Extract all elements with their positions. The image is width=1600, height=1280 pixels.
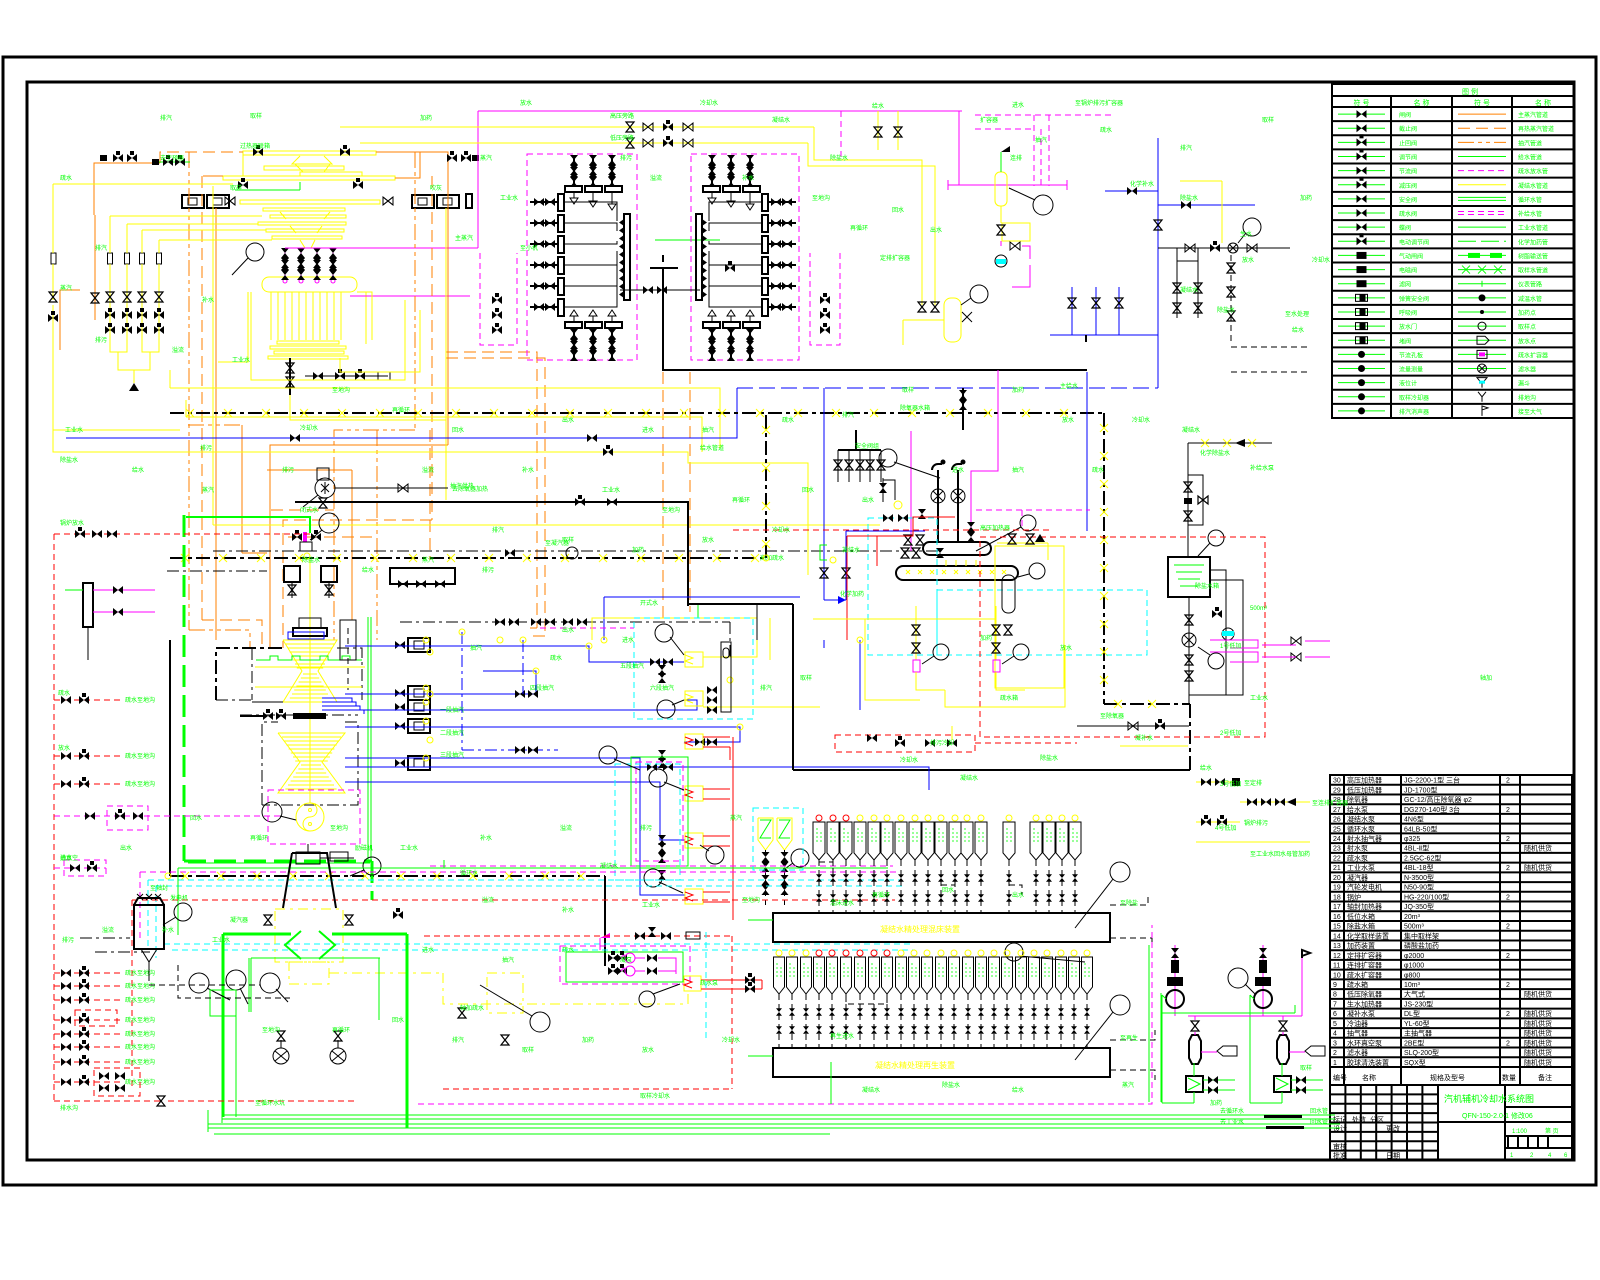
- svg-text:化学除盐水: 化学除盐水: [1200, 449, 1230, 457]
- svg-text:冷却水: 冷却水: [900, 756, 918, 764]
- row1 bypass dashes: [941, 885, 955, 895]
- svg-text:进水: 进水: [952, 466, 964, 474]
- svg-text:N50-90型: N50-90型: [1404, 883, 1434, 892]
- heat trace under turbine: [170, 875, 605, 877]
- manifold outer bar: [762, 194, 768, 211]
- svg-text:GC-12/高压除氧器 φ2: GC-12/高压除氧器 φ2: [1404, 795, 1472, 804]
- svg-text:混床进水: 混床进水: [830, 899, 854, 907]
- svg-text:给水: 给水: [1200, 764, 1212, 772]
- sample magenta riser: [1262, 945, 1264, 1016]
- attemperator spray line: [350, 295, 470, 297]
- green cross line: [1161, 1012, 1295, 1014]
- feedwater line to drum: [285, 247, 478, 249]
- deaerator instrument top: [1020, 515, 1036, 531]
- svg-text:安全阀: 安全阀: [1399, 196, 1417, 204]
- orange feed loop left: [60, 290, 80, 350]
- condensate discharge green: [235, 1003, 237, 1117]
- HP heater black boxes: [284, 566, 300, 582]
- svg-text:排地沟: 排地沟: [1518, 394, 1536, 402]
- svg-text:25: 25: [1333, 826, 1341, 833]
- svg-text:生水加热器: 生水加热器: [1347, 999, 1382, 1008]
- green valve line upper: [158, 161, 190, 163]
- row2 bypass dash: [846, 996, 887, 1004]
- svg-text:JS-230型: JS-230型: [1404, 999, 1433, 1008]
- turbine valve chest: [293, 628, 327, 636]
- svg-text:凝补水泵: 凝补水泵: [1347, 1009, 1375, 1018]
- svg-text:至地沟: 至地沟: [330, 824, 348, 832]
- svg-text:工业水: 工业水: [500, 194, 518, 202]
- makeup line with arrow: [1188, 442, 1272, 444]
- svg-text:疏水放水管: 疏水放水管: [1518, 168, 1548, 176]
- heat trace y704 to x1190: [1104, 703, 1190, 705]
- svg-text:除盐水: 除盐水: [1180, 194, 1198, 202]
- deaerator head: [923, 542, 991, 555]
- black main pipe left of turbine: [169, 640, 171, 876]
- svg-text:疏水泵: 疏水泵: [700, 979, 718, 987]
- yellow web lines: [53, 429, 180, 431]
- svg-text:进水: 进水: [422, 946, 434, 954]
- svg-text:除盐水: 除盐水: [1040, 754, 1058, 762]
- water seal pot: [1222, 628, 1234, 640]
- svg-text:2.5GC-62型: 2.5GC-62型: [1404, 853, 1441, 862]
- svg-text:至轴封: 至轴封: [150, 884, 168, 892]
- svg-text:3号低加: 3号低加: [1220, 780, 1241, 788]
- svg-text:4BL-18型: 4BL-18型: [1404, 863, 1434, 872]
- svg-text:低位水箱: 低位水箱: [1347, 912, 1375, 921]
- svg-text:18: 18: [1333, 894, 1341, 901]
- svg-text:进水: 进水: [622, 636, 634, 644]
- svg-text:凝结水: 凝结水: [1182, 426, 1200, 434]
- svg-text:YL-60型: YL-60型: [1404, 1019, 1430, 1028]
- svg-text:工业水: 工业水: [400, 844, 418, 852]
- svg-text:凝汽器: 凝汽器: [1347, 873, 1368, 882]
- svg-text:补给水管: 补给水管: [1518, 210, 1542, 218]
- svg-text:至再生: 至再生: [1120, 1034, 1138, 1042]
- yellow line y463 right segment: [800, 463, 808, 575]
- svg-text:至循环水坑: 至循环水坑: [255, 1099, 285, 1107]
- gland instrument: [639, 991, 655, 1007]
- svg-text:大气式: 大气式: [1404, 990, 1425, 999]
- svg-text:2: 2: [1506, 1011, 1510, 1018]
- svg-text:加药: 加药: [1300, 194, 1312, 202]
- sample tag: [1305, 1046, 1325, 1056]
- bundle red dashed: [132, 899, 895, 901]
- svg-text:凝结水: 凝结水: [772, 116, 790, 124]
- magenta line to flash tank: [958, 111, 960, 185]
- svg-text:抽汽: 抽汽: [1035, 136, 1047, 144]
- svg-text:排污: 排污: [620, 154, 632, 162]
- svg-text:放水: 放水: [1060, 644, 1072, 652]
- feed pump unit B: [995, 606, 997, 660]
- svg-text:至除氧器: 至除氧器: [1100, 712, 1124, 720]
- gland seal green squarewave: [256, 656, 362, 660]
- svg-text:放水: 放水: [1242, 256, 1254, 264]
- svg-text:连排扩容器: 连排扩容器: [1347, 961, 1382, 970]
- blue line y388 long: [737, 387, 1158, 389]
- svg-text:溢流: 溢流: [482, 896, 494, 904]
- svg-text:轴加: 轴加: [1480, 674, 1492, 682]
- svg-text:放水: 放水: [702, 536, 714, 544]
- svg-text:出水: 出水: [930, 226, 942, 234]
- svg-text:凝结水: 凝结水: [1180, 286, 1198, 294]
- orange web horizontals: [267, 469, 352, 471]
- svg-text:抽汽: 抽汽: [1012, 466, 1024, 474]
- green sensor line top: [235, 189, 300, 191]
- BFPT pump circle: [315, 478, 335, 498]
- svg-text:冷却水: 冷却水: [772, 526, 790, 534]
- extraction line 1: [345, 646, 684, 662]
- polishing dashed stubs: [1110, 895, 1148, 905]
- yellow riser left 2: [126, 224, 128, 253]
- svg-text:排汽: 排汽: [95, 244, 107, 252]
- svg-text:12: 12: [1333, 953, 1341, 960]
- yellow node circles: [520, 637, 526, 643]
- svg-text:随机供货: 随机供货: [1524, 863, 1552, 872]
- svg-text:抽汽管道: 抽汽管道: [1518, 139, 1542, 147]
- manifold center tee: [650, 267, 678, 269]
- title block: [1330, 1085, 1572, 1160]
- svg-text:主抽气器: 主抽气器: [1404, 1029, 1432, 1038]
- svg-text:高加疏水: 高加疏水: [760, 554, 784, 562]
- black dashed path condenser: [178, 965, 290, 998]
- svg-text:循环水: 循环水: [460, 869, 478, 877]
- svg-text:疏水阀: 疏水阀: [1399, 210, 1417, 218]
- svg-text:至小机: 至小机: [520, 244, 538, 252]
- blue vertical from feed line end: [1086, 372, 1088, 531]
- gland condenser red lines: [701, 979, 762, 981]
- boiler blowdown valves: [289, 358, 291, 395]
- svg-text:取样点: 取样点: [1518, 323, 1536, 331]
- blue sample stubs: [1071, 287, 1073, 335]
- magenta cross line: [1188, 1015, 1302, 1017]
- svg-text:随机供货: 随机供货: [1524, 1029, 1552, 1038]
- svg-text:一段抽汽: 一段抽汽: [440, 706, 464, 714]
- svg-text:开式水: 开式水: [640, 599, 658, 607]
- gland pump valves: [608, 951, 618, 962]
- svg-text:溢流: 溢流: [560, 824, 572, 832]
- svg-text:接至大气: 接至大气: [1518, 408, 1542, 416]
- condenser inlet valves: [264, 915, 272, 925]
- svg-text:14: 14: [1333, 933, 1341, 940]
- svg-text:排污: 排污: [95, 336, 107, 344]
- turbine blue inlet rect: [288, 632, 324, 639]
- orange center verticals: [446, 352, 537, 628]
- sample HX: [1274, 1076, 1291, 1092]
- yellow drain label line: [1120, 745, 1188, 747]
- svg-text:至连排扩容器: 至连排扩容器: [1312, 799, 1348, 807]
- sample vessel: [1277, 1035, 1289, 1064]
- gland exhaust funnels: [758, 818, 773, 850]
- black main riser x793: [792, 604, 794, 770]
- svg-text:化学补水: 化学补水: [1130, 180, 1154, 188]
- equipment list table: [1330, 775, 1572, 1085]
- svg-text:吹灰: 吹灰: [430, 184, 442, 192]
- svg-text:出水: 出水: [562, 626, 574, 634]
- svg-text:加药: 加药: [1012, 386, 1024, 394]
- LP inlet black bar: [293, 713, 326, 719]
- svg-text:JQ-350型: JQ-350型: [1404, 902, 1434, 911]
- gland steam condenser: [684, 976, 701, 991]
- manifold top stubs: [711, 155, 713, 186]
- condenser shell yellow: [275, 909, 343, 962]
- black valve cluster left of head: [901, 548, 909, 558]
- svg-text:至定排: 至定排: [1244, 779, 1262, 787]
- svg-text:排汽: 排汽: [492, 526, 504, 534]
- svg-text:24: 24: [1333, 836, 1341, 843]
- heater red drain pipes: [703, 736, 730, 738]
- condensate pumps: [273, 1048, 289, 1064]
- red dashed line from heaters: [733, 529, 1050, 531]
- black risers below treatment line: [1176, 248, 1178, 318]
- svg-text:节流孔板: 节流孔板: [1399, 351, 1423, 359]
- svg-text:射水泵: 射水泵: [1347, 844, 1368, 853]
- svg-text:轴封加热器: 轴封加热器: [1347, 902, 1382, 911]
- svg-text:1:100: 1:100: [1512, 1129, 1528, 1135]
- LP heater 4: [685, 786, 703, 801]
- svg-text:仪表管路: 仪表管路: [1518, 281, 1542, 289]
- svg-text:补水: 补水: [562, 906, 574, 914]
- red recirculation lines: [847, 517, 955, 536]
- green and magenta right risers: [1148, 945, 1150, 1102]
- svg-text:出水: 出水: [862, 496, 874, 504]
- svg-text:φ325: φ325: [1404, 836, 1420, 843]
- svg-text:除盐水箱: 除盐水箱: [1195, 582, 1219, 590]
- boiler superheater zigzag 1: [292, 156, 332, 172]
- bypass valve group lower: [626, 138, 634, 148]
- manifold top headers: [703, 186, 720, 192]
- svg-text:凝泵: 凝泵: [620, 956, 632, 964]
- drain cooler tall rect: [721, 642, 731, 712]
- nested green magenta box heaters: [631, 757, 688, 866]
- svg-text:疏水箱: 疏水箱: [1347, 980, 1368, 989]
- flash tank drain box: [1000, 206, 1002, 223]
- svg-text:蒸汽: 蒸汽: [1122, 1081, 1134, 1089]
- svg-text:21: 21: [1333, 865, 1341, 872]
- transfer line to deaerator: [1077, 725, 1189, 727]
- svg-text:进水: 进水: [642, 426, 654, 434]
- svg-text:水环真空泵: 水环真空泵: [1347, 1038, 1382, 1047]
- svg-text:疏水: 疏水: [782, 416, 794, 424]
- resin cylinders row 1: [816, 815, 822, 821]
- svg-text:给水泵: 给水泵: [1347, 805, 1368, 814]
- svg-text:定排扩容器: 定排扩容器: [1347, 951, 1382, 960]
- svg-text:回水管: 回水管: [1310, 1107, 1328, 1115]
- svg-text:加药点: 加药点: [1518, 309, 1536, 317]
- turbine HP section: [283, 640, 337, 702]
- svg-text:过热器联箱: 过热器联箱: [240, 142, 270, 150]
- svg-text:加药: 加药: [980, 634, 992, 642]
- svg-text:至地沟: 至地沟: [332, 386, 350, 394]
- svg-text:调节阀: 调节阀: [1399, 153, 1417, 161]
- svg-text:除氧器: 除氧器: [1347, 795, 1368, 804]
- svg-text:1号低加: 1号低加: [1220, 642, 1241, 650]
- extraction yellow nodes: [423, 637, 429, 643]
- svg-text:工业水: 工业水: [212, 936, 230, 944]
- boiler platen coils: [263, 208, 345, 211]
- svg-text:11: 11: [1333, 963, 1340, 970]
- svg-text:疏水至地沟: 疏水至地沟: [125, 780, 155, 788]
- svg-text:循环水管: 循环水管: [1518, 196, 1542, 204]
- svg-text:2BE型: 2BE型: [1404, 1038, 1424, 1047]
- magenta drain cooler pair: [1210, 640, 1258, 648]
- red dashed drain header y738: [835, 735, 975, 752]
- svg-text:安全阀组: 安全阀组: [855, 442, 879, 450]
- svg-text:高压加热器: 高压加热器: [980, 524, 1010, 532]
- svg-text:蒸汽: 蒸汽: [480, 154, 492, 162]
- air preheater symbols right: [412, 195, 434, 208]
- boiler superheater bar 1: [243, 151, 376, 155]
- svg-text:疏水至地沟: 疏水至地沟: [125, 969, 155, 977]
- manifold bottom headers: [703, 322, 720, 328]
- circulating water mains: [222, 1114, 1335, 1116]
- svg-text:疏水泵: 疏水泵: [1347, 853, 1368, 862]
- extraction to deaerator: [859, 640, 861, 710]
- svg-text:凝汽器: 凝汽器: [230, 916, 248, 924]
- manifold bottom stubs: [573, 328, 575, 360]
- black valve pair top right: [447, 151, 457, 162]
- tank safety valve bank: [997, 542, 1048, 544]
- svg-text:批准: 批准: [1333, 1151, 1347, 1160]
- svg-text:DL型: DL型: [1404, 1009, 1420, 1018]
- svg-text:64LB-50型: 64LB-50型: [1404, 824, 1437, 833]
- svg-text:减压阀: 减压阀: [1399, 182, 1417, 190]
- svg-text:疏水至地沟: 疏水至地沟: [125, 752, 155, 760]
- svg-text:分区: 分区: [1370, 1115, 1384, 1124]
- svg-text:抽汽供热: 抽汽供热: [450, 482, 474, 490]
- demin tank instrument: [1208, 530, 1224, 546]
- svg-text:8: 8: [1333, 992, 1337, 999]
- svg-text:去工业水: 去工业水: [1220, 1118, 1244, 1126]
- svg-text:化学加药: 化学加药: [840, 590, 864, 598]
- svg-text:疏水至地沟: 疏水至地沟: [125, 996, 155, 1004]
- gland steam heater 2: [685, 691, 703, 706]
- svg-text:连排: 连排: [1010, 154, 1022, 162]
- svg-text:凝结水精处理混床装置: 凝结水精处理混床装置: [880, 924, 960, 934]
- svg-text:再生进水: 再生进水: [830, 1032, 854, 1040]
- svg-text:φ2000: φ2000: [1404, 953, 1424, 960]
- svg-text:放水: 放水: [642, 1046, 654, 1054]
- svg-text:处数: 处数: [1352, 1115, 1366, 1124]
- svg-text:回水: 回水: [802, 486, 814, 494]
- cyan vertical x706: [705, 932, 707, 1040]
- svg-text:减温水管: 减温水管: [1518, 295, 1542, 303]
- green pump box: [210, 990, 236, 1016]
- svg-text:2: 2: [1506, 894, 1510, 901]
- gland steam heater 1: [685, 652, 703, 667]
- right steam manifold magenta box: [691, 154, 799, 360]
- blue makeup water piping: [1105, 190, 1158, 192]
- svg-text:疏水: 疏水: [60, 174, 72, 182]
- svg-text:电磁阀: 电磁阀: [1399, 267, 1417, 275]
- generator instrument: [262, 802, 282, 822]
- manifold funnels: [573, 192, 575, 198]
- svg-text:排污冷却: 排污冷却: [930, 739, 954, 747]
- svg-text:取样: 取样: [522, 1046, 534, 1054]
- extraction lower runs: [345, 782, 685, 840]
- svg-text:20m³: 20m³: [1404, 914, 1421, 921]
- svg-text:取样水管道: 取样水管道: [1518, 267, 1548, 275]
- svg-text:取样: 取样: [800, 674, 812, 682]
- svg-text:出水: 出水: [1012, 891, 1024, 899]
- valve clusters beside manifolds: [492, 293, 502, 304]
- turbine gland lines black: [252, 701, 283, 703]
- gland seal yellow line: [255, 666, 365, 668]
- svg-text:二段抽汽: 二段抽汽: [440, 729, 464, 737]
- magenta dashed headers top right: [975, 114, 1115, 116]
- svg-text:给水: 给水: [1292, 326, 1304, 334]
- green into condenser: [371, 861, 374, 900]
- manifold outer stubs with valves: [530, 201, 558, 203]
- svg-text:闭式水: 闭式水: [300, 506, 318, 514]
- svg-text:排汽: 排汽: [1180, 144, 1192, 152]
- svg-text:出水: 出水: [120, 844, 132, 852]
- crossover blue elbows: [322, 698, 352, 702]
- drum feed nozzles: [284, 248, 286, 277]
- svg-text:汽机辅机冷却水系统图: 汽机辅机冷却水系统图: [1444, 1093, 1534, 1104]
- LP exhaust trapezoid: [283, 853, 336, 908]
- svg-text:疏水至地沟: 疏水至地沟: [125, 982, 155, 990]
- svg-text:13: 13: [1333, 943, 1341, 950]
- svg-text:至地沟: 至地沟: [662, 506, 680, 514]
- green vertical x698: [697, 603, 699, 618]
- boiler bottom yellow loop: [251, 300, 405, 380]
- boiler superheater bar 3: [240, 200, 380, 204]
- svg-text:取样: 取样: [250, 112, 262, 120]
- svg-text:溢流: 溢流: [422, 466, 434, 474]
- svg-text:4BL-Ⅱ型: 4BL-Ⅱ型: [1404, 844, 1429, 853]
- svg-text:随机供货: 随机供货: [1524, 1058, 1552, 1067]
- svg-text:19: 19: [1333, 885, 1341, 892]
- svg-text:疏水: 疏水: [562, 946, 574, 954]
- svg-text:主蒸汽: 主蒸汽: [455, 234, 473, 242]
- svg-text:至地沟: 至地沟: [742, 896, 760, 904]
- extraction line 5: [345, 767, 929, 790]
- svg-text:低压加热器: 低压加热器: [1347, 785, 1382, 794]
- svg-text:更改: 更改: [1386, 1124, 1400, 1133]
- svg-text:2: 2: [1506, 836, 1510, 843]
- svg-text:补水: 补水: [202, 296, 214, 304]
- svg-text:回水: 回水: [452, 426, 464, 434]
- svg-text:3: 3: [1333, 1040, 1337, 1047]
- left steam vent valve group: [108, 253, 113, 264]
- svg-text:加药: 加药: [582, 1036, 594, 1044]
- svg-text:疏水至地沟: 疏水至地沟: [125, 1058, 155, 1066]
- legend table frame: [1332, 84, 1574, 418]
- svg-text:励磁机: 励磁机: [355, 844, 373, 852]
- svg-text:工业水: 工业水: [1250, 694, 1268, 702]
- bundle cyan lines: [148, 879, 900, 881]
- green riser right pair: [1160, 993, 1162, 1102]
- yellow bypass lines y127 y143: [340, 126, 814, 128]
- svg-text:蝶阀: 蝶阀: [1399, 224, 1411, 232]
- svg-text:六段抽汽: 六段抽汽: [650, 684, 674, 692]
- svg-text:JD-1700型: JD-1700型: [1404, 785, 1437, 794]
- sample pump: [1166, 990, 1184, 1008]
- svg-text:10m³: 10m³: [1404, 982, 1421, 989]
- steam drum: [262, 277, 357, 292]
- yellow blowdown stubs left of table: [1196, 781, 1240, 783]
- CW green pipes: [222, 934, 225, 1117]
- svg-text:随机供货: 随机供货: [1524, 1048, 1552, 1057]
- extraction line 4: [345, 727, 740, 742]
- svg-text:29: 29: [1333, 787, 1341, 794]
- svg-text:加药: 加药: [632, 546, 644, 554]
- svg-text:取样: 取样: [562, 536, 574, 544]
- magenta dashed stub x841: [840, 111, 842, 160]
- yellow drops to blowdown vessel: [814, 127, 922, 305]
- svg-text:2: 2: [1506, 778, 1510, 785]
- drain box small: [75, 1010, 117, 1026]
